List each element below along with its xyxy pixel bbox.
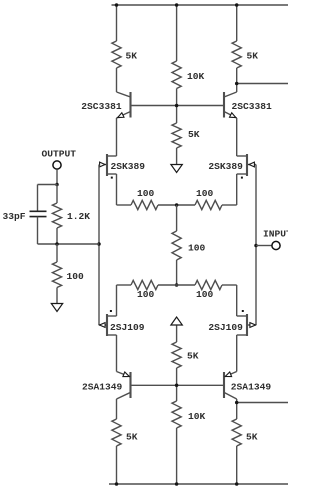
wire R7 top lead — [176, 205, 178, 231]
wire Q1-Q2 base line — [131, 105, 225, 107]
wire lower row to J3 — [116, 285, 118, 316]
resistor R15 5K — [232, 419, 241, 446]
wire R10 top lead — [56, 185, 58, 204]
wire J4 to Q4 emitter — [236, 335, 238, 372]
wire upper row left — [117, 204, 132, 206]
svg-text:100: 100 — [196, 188, 214, 199]
wire R4 to Q2 collector — [236, 68, 238, 92]
wire R15 to bottom rail — [236, 446, 238, 484]
arrow J4 gate P-channel — [250, 323, 256, 328]
marker dot J1 — [111, 177, 113, 179]
node rail bottom left — [115, 482, 119, 486]
resistor R3 5K — [172, 123, 181, 148]
node rail bottom middle — [175, 482, 179, 486]
resistor R2 10K — [172, 61, 181, 89]
node output top junction — [55, 183, 59, 187]
resistor R8 100 — [131, 280, 158, 289]
jfet J1 2SK389 — [99, 154, 117, 176]
ground top middle — [171, 165, 182, 173]
wire R13 to bottom rail — [176, 428, 178, 484]
transistor Q3 2SA1349 — [117, 372, 131, 400]
resistor R13 10K — [172, 401, 181, 428]
transistor Q1 2SC3381 — [117, 92, 131, 118]
wire Q3-Q4 base line — [131, 384, 225, 386]
svg-text:100: 100 — [137, 188, 155, 199]
wire R1 top lead — [116, 5, 118, 41]
resistor R9 100 — [195, 280, 222, 289]
ground output — [51, 304, 62, 312]
marker dot J2 — [241, 177, 243, 179]
svg-text:5K: 5K — [187, 351, 199, 362]
svg-text:5K: 5K — [188, 129, 200, 140]
wire R7 bottom lead — [176, 260, 178, 285]
power arrow bottom middle — [171, 317, 182, 325]
wire output feedback line — [38, 243, 100, 245]
svg-text:33pF: 33pF — [3, 211, 26, 222]
arrow Q2 emitter NPN — [230, 113, 238, 120]
wire R3 to ground — [176, 148, 178, 165]
wire R11 top lead — [56, 244, 58, 262]
node output bottom junction — [55, 242, 59, 246]
wire R2 top lead — [176, 5, 178, 61]
svg-text:5K: 5K — [126, 432, 138, 443]
svg-text:5K: 5K — [246, 432, 258, 443]
wire node OUT2 to right edge — [237, 83, 288, 85]
resistor R6 100 — [195, 200, 222, 209]
svg-text:10K: 10K — [188, 411, 206, 422]
wire left gate bus — [98, 165, 100, 326]
capacitor C1 33pF — [30, 211, 47, 216]
transistor Q2 2SC3381 — [224, 92, 237, 118]
resistor R10 1.2K — [52, 203, 61, 228]
marker dot J4 — [242, 310, 244, 312]
svg-text:2SJ109: 2SJ109 — [208, 322, 243, 333]
wire input stub — [256, 245, 272, 247]
wire R4 top lead — [236, 5, 238, 41]
arrow J1 gate N-channel — [100, 162, 105, 167]
svg-text:2SJ109: 2SJ109 — [110, 322, 145, 333]
wire J3 to Q3 emitter — [116, 335, 118, 372]
resistor R11 100 — [52, 262, 61, 288]
resistor R5 100 — [131, 200, 158, 209]
wire J1 source down — [116, 174, 118, 205]
svg-text:2SA1349: 2SA1349 — [231, 382, 272, 393]
node rail top right — [235, 3, 239, 7]
wire to C1 top — [38, 184, 58, 186]
wire Q2 emitter to J2 drain — [236, 118, 238, 156]
wire upper row middle — [158, 204, 195, 206]
wire V+ top rail — [112, 4, 289, 6]
node rail top middle — [175, 3, 179, 7]
resistor R4 5K — [232, 41, 241, 68]
node rail bottom right — [235, 482, 239, 486]
node left gate junction — [97, 242, 101, 246]
node base bias junction — [175, 104, 179, 108]
wire V- bottom rail — [109, 483, 288, 485]
node Q2 collector junction — [235, 82, 239, 86]
jfet J4 2SJ109 — [237, 314, 256, 336]
svg-text:OUTPUT: OUTPUT — [42, 149, 77, 160]
wire C1 bottom lead — [37, 217, 39, 244]
svg-text:100: 100 — [196, 289, 214, 300]
wire R1 to Q1 collector — [116, 68, 118, 92]
wire R10 bottom lead — [56, 228, 58, 244]
resistor R1 5K — [112, 41, 121, 68]
svg-text:2SK389: 2SK389 — [208, 161, 243, 172]
wire lower row to J4 — [236, 285, 238, 316]
svg-text:INPUT: INPUT — [263, 229, 288, 240]
node rail top left — [115, 3, 119, 7]
wire Q4 collector down — [236, 399, 238, 419]
wire lower row middle — [158, 284, 195, 286]
wire lower row left — [117, 284, 132, 286]
arrow Q1 emitter NPN — [117, 113, 124, 120]
wire Q3 collector down — [116, 399, 118, 419]
svg-text:1.2K: 1.2K — [67, 211, 90, 222]
node Q4 collector junction — [235, 401, 239, 405]
wire C1 top lead — [37, 185, 39, 212]
svg-text:10K: 10K — [187, 71, 205, 82]
svg-text:100: 100 — [188, 243, 206, 254]
wire R14 to bottom rail — [116, 446, 118, 484]
svg-text:5K: 5K — [126, 51, 138, 62]
marker dot J3 — [110, 310, 112, 312]
node lower row junction — [175, 283, 179, 287]
arrow J3 gate P-channel — [100, 323, 106, 328]
node input junction — [254, 244, 258, 248]
resistor R12 5K — [172, 342, 181, 368]
arrow Q4 emitter PNP — [224, 372, 231, 379]
resistor R14 5K — [112, 419, 121, 446]
svg-text:2SC3381: 2SC3381 — [81, 101, 122, 112]
wire R12 to node B2 — [176, 368, 178, 401]
transistor Q4 2SA1349 — [224, 372, 237, 400]
arrow J2 gate N-channel — [249, 162, 254, 167]
wire R11 to ground — [56, 288, 58, 304]
wire node OUT3 to right edge — [237, 402, 288, 404]
jfet J2 2SK389 — [237, 154, 256, 176]
jfet J3 2SJ109 — [99, 314, 117, 336]
svg-text:2SA1349: 2SA1349 — [82, 382, 123, 393]
node upper row junction — [175, 203, 179, 207]
wire Q1 emitter to J1 drain — [116, 118, 118, 156]
node lower base junction — [175, 384, 179, 388]
svg-text:2SK389: 2SK389 — [111, 161, 146, 172]
arrow Q3 emitter PNP — [123, 372, 130, 379]
wire R2 to node B1 — [176, 89, 178, 124]
resistor R7 100 — [172, 231, 181, 260]
wire arrow to R12 — [176, 326, 178, 343]
wire lower row right — [222, 284, 237, 286]
svg-text:100: 100 — [67, 271, 85, 282]
wire J2 source down — [236, 174, 238, 205]
svg-text:100: 100 — [137, 289, 155, 300]
wire output terminal lead — [56, 169, 58, 184]
terminal INPUT — [272, 241, 280, 249]
wire right gate bus — [255, 165, 257, 326]
terminal OUTPUT — [53, 161, 61, 169]
wire upper row right — [222, 204, 237, 206]
svg-text:2SC3381: 2SC3381 — [232, 101, 273, 112]
svg-text:5K: 5K — [247, 51, 259, 62]
